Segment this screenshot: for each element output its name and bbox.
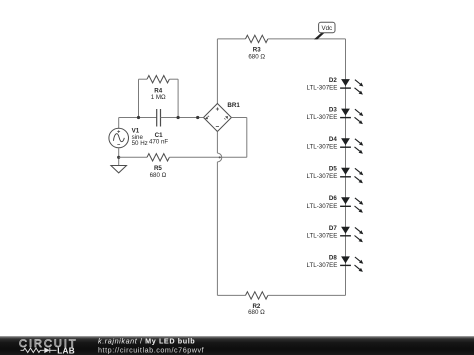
svg-text:LTL-307EE: LTL-307EE — [307, 262, 338, 269]
node Vdc flag — [314, 22, 335, 39]
ground — [111, 166, 127, 173]
voltage source V1 — [109, 128, 148, 148]
wire: BR1 bottom vertical upper part — [216, 132, 218, 154]
wire: V1 top lead — [118, 118, 120, 129]
svg-text:D3: D3 — [329, 107, 337, 114]
LED D6 — [307, 195, 364, 213]
LED D2 — [307, 77, 364, 95]
svg-text:50 Hz: 50 Hz — [132, 140, 148, 147]
junction blob at wire hop — [219, 156, 221, 158]
svg-text:Vdc: Vdc — [321, 25, 332, 32]
wire: V1 bottom lead to ground — [118, 148, 120, 166]
wire: R4 branch right lead — [169, 78, 178, 80]
LED D8 — [307, 254, 364, 272]
svg-text:1 MΩ: 1 MΩ — [151, 94, 166, 101]
CircuitLab logo diode — [44, 348, 50, 354]
junction dot V1 bottom node — [117, 156, 120, 159]
wire: R5 left lead — [119, 156, 147, 158]
svg-text:680 Ω: 680 Ω — [248, 309, 265, 316]
svg-text:D2: D2 — [329, 77, 337, 84]
svg-text:LTL-307EE: LTL-307EE — [307, 114, 338, 121]
LED D7 — [307, 225, 364, 243]
resistor R5 — [147, 154, 169, 179]
wire: R4 right stub — [177, 79, 179, 117]
wire: R4 left stub — [138, 79, 140, 117]
wire: left vertical from top rail to BR1 top — [216, 39, 218, 104]
CircuitLab logo resistor zigzag — [21, 348, 45, 352]
wire: bottom rail right segment — [268, 294, 346, 296]
resistor R2 — [246, 292, 268, 316]
junction dot R4 left — [137, 116, 140, 119]
svg-text:LAB: LAB — [57, 347, 75, 355]
wire: BR1 bottom vertical lower part — [216, 162, 218, 296]
svg-text:D7: D7 — [329, 225, 337, 232]
wire: right rail with LED chain — [345, 39, 347, 296]
svg-text:k.rajnikant / My LED bulb: k.rajnikant / My LED bulb — [98, 337, 195, 346]
LED D5 — [307, 166, 364, 184]
svg-text:D8: D8 — [329, 254, 337, 261]
wire: R4 branch left lead — [139, 78, 148, 80]
wire: R5 to loop corner — [169, 156, 246, 158]
resistor R4 — [147, 76, 169, 102]
wire: loop vertical up to BR1 right — [246, 118, 248, 158]
svg-text:680 Ω: 680 Ω — [150, 172, 167, 179]
LED D4 — [307, 136, 364, 154]
wire: loop horizontal to BR1 right pin — [231, 117, 246, 119]
capacitor C1 — [149, 109, 168, 146]
svg-text:LTL-307EE: LTL-307EE — [307, 85, 338, 92]
LED D3 — [307, 107, 364, 125]
svg-text:R3: R3 — [253, 46, 261, 53]
bridge rectifier BR1 — [204, 102, 241, 132]
svg-text:680 Ω: 680 Ω — [248, 53, 265, 60]
resistor R3 — [246, 35, 268, 60]
svg-text:LTL-307EE: LTL-307EE — [307, 232, 338, 239]
svg-text:470 nF: 470 nF — [149, 139, 168, 146]
svg-text:D6: D6 — [329, 195, 337, 202]
wire: main horizontal C1-to-BR1 — [161, 117, 204, 119]
svg-text:LTL-307EE: LTL-307EE — [307, 144, 338, 151]
wire: main horizontal V1-to-BR1 left part — [119, 117, 157, 119]
svg-text:BR1: BR1 — [227, 102, 240, 109]
wire: top rail left segment — [217, 38, 245, 40]
svg-text:LTL-307EE: LTL-307EE — [307, 173, 338, 180]
junction dot at BR1 left pin — [196, 116, 199, 119]
svg-text:LTL-307EE: LTL-307EE — [307, 203, 338, 210]
wire: top rail right segment — [268, 38, 346, 40]
junction dot R4 right — [177, 116, 180, 119]
svg-text:http://circuitlab.com/c76pwvf: http://circuitlab.com/c76pwvf — [98, 345, 204, 354]
wire: bottom rail left segment — [217, 294, 245, 296]
wire hop over R5 wire — [217, 153, 221, 162]
svg-text:D5: D5 — [329, 166, 337, 173]
footer bar — [0, 336, 474, 355]
svg-text:D4: D4 — [329, 136, 337, 143]
